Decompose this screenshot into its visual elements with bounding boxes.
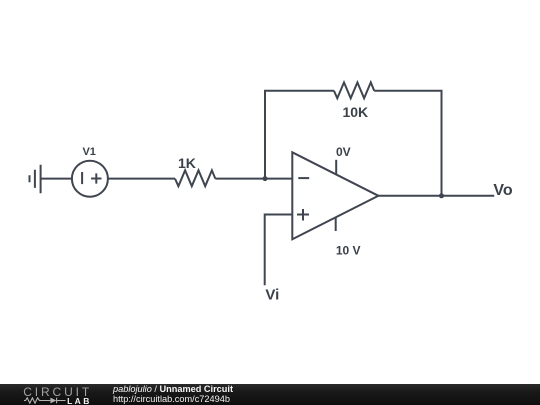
svg-text:10 V: 10 V <box>336 243 361 257</box>
svg-text:10K: 10K <box>342 104 368 120</box>
svg-text:0V: 0V <box>336 145 351 159</box>
svg-text:1K: 1K <box>178 155 196 171</box>
svg-text:Vo: Vo <box>493 182 512 199</box>
svg-text:V1: V1 <box>82 146 95 158</box>
svg-text:Vi: Vi <box>265 287 279 304</box>
